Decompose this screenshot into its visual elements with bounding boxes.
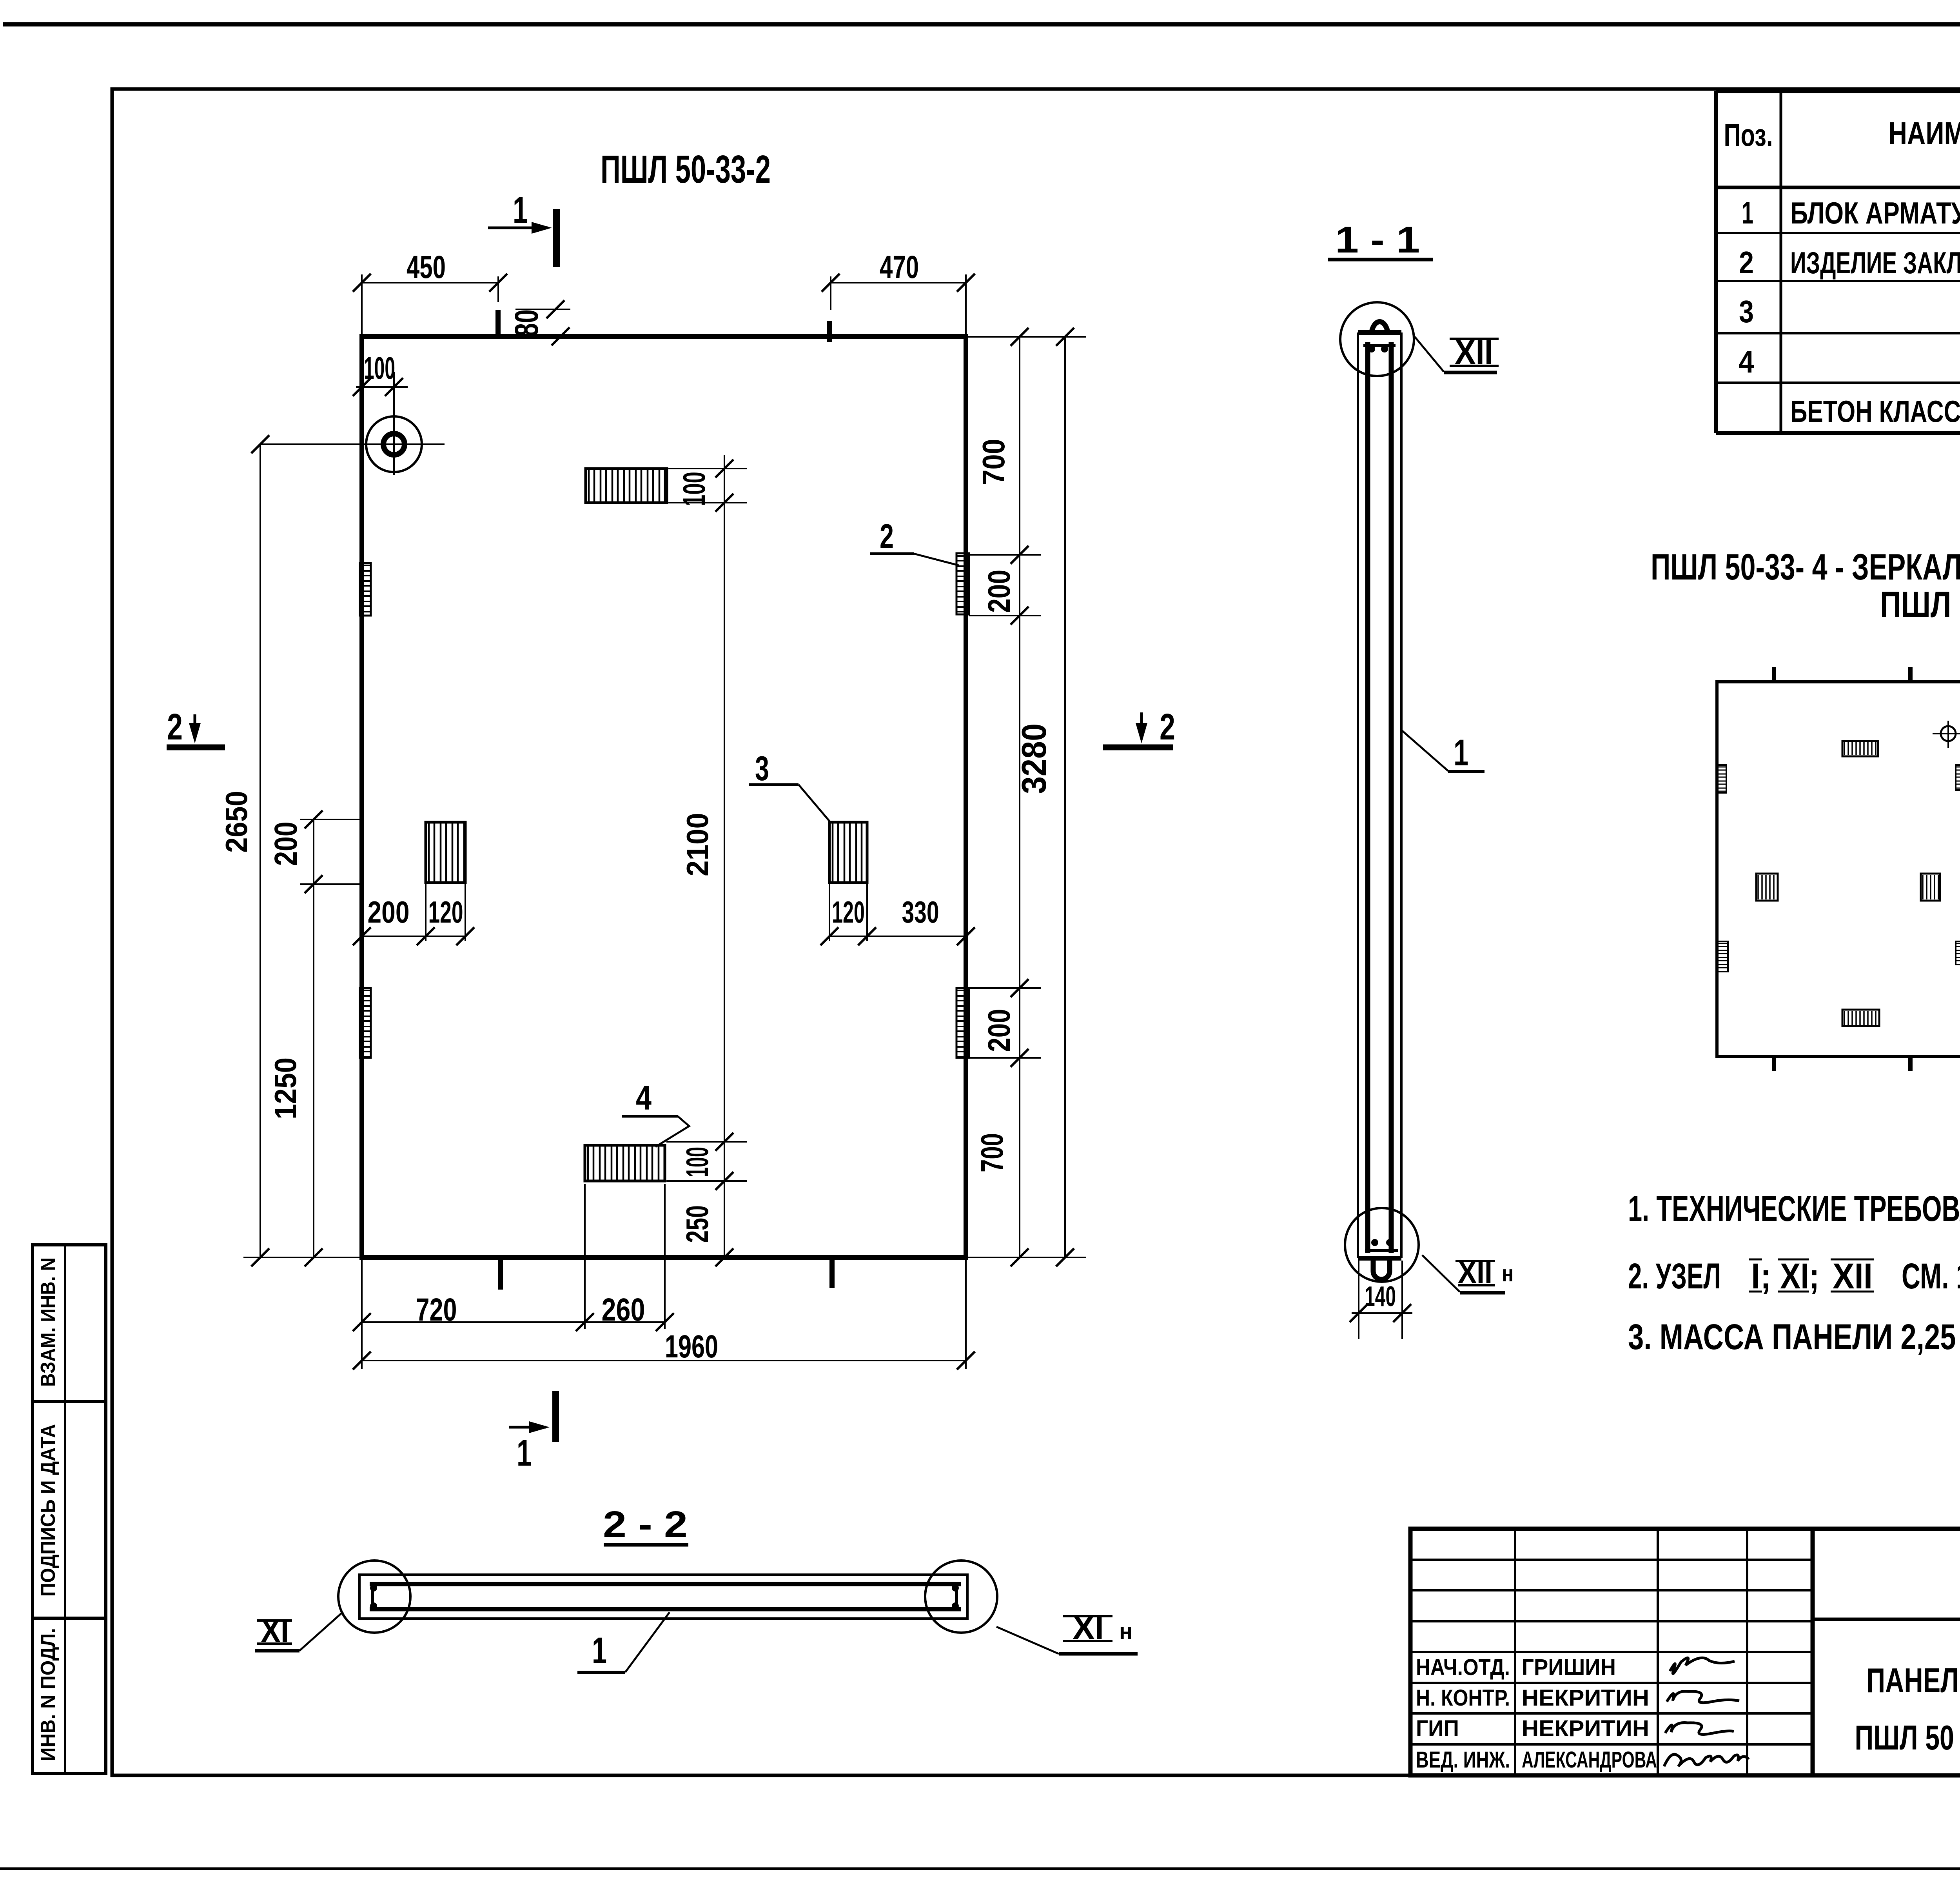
svg-text:100: 100 bbox=[677, 472, 711, 506]
svg-text:ПОДПИСЬ И ДАТА: ПОДПИСЬ И ДАТА bbox=[37, 1424, 60, 1597]
mirror edge plate right upper bbox=[1956, 765, 1960, 790]
svg-text:АЛЕКСАНДРОВА: АЛЕКСАНДРОВА bbox=[1522, 1747, 1657, 1773]
svg-text:2. УЗЕЛ: 2. УЗЕЛ bbox=[1628, 1256, 1721, 1296]
svg-text:XI;: XI; bbox=[1780, 1256, 1819, 1296]
svg-text:2: 2 bbox=[1160, 706, 1175, 748]
section 2-2 panel strip outline bbox=[359, 1575, 967, 1619]
dimension 720 260 bottom bbox=[361, 1257, 363, 1369]
edge plate left lower bbox=[360, 988, 371, 1058]
svg-text:ИЗДЕЛИЕ ЗАКЛАДНОЕ МН 1: ИЗДЕЛИЕ ЗАКЛАДНОЕ МН 1 bbox=[1790, 245, 1960, 280]
svg-text:4: 4 bbox=[636, 1078, 652, 1117]
overall dimension 3280 right bbox=[1064, 337, 1066, 1257]
section 2-2 left end rebar bbox=[371, 1584, 374, 1609]
svg-text:ПШЛ 50 - 33 -2; ПШЛ 50-33-4: ПШЛ 50 - 33 -2; ПШЛ 50-33-4 bbox=[1855, 1718, 1960, 1757]
signature Некритин 1 bbox=[1667, 1691, 1739, 1703]
svg-text:120: 120 bbox=[832, 895, 865, 929]
svg-text:200: 200 bbox=[982, 570, 1016, 613]
section 1-1 top lifting loop bbox=[1371, 322, 1388, 334]
svg-text:1: 1 bbox=[517, 1432, 532, 1474]
svg-text:XII: XII bbox=[1833, 1256, 1873, 1296]
svg-text:НАИМЕНОВАНИЕ: НАИМЕНОВАНИЕ bbox=[1889, 116, 1960, 151]
svg-text:3280: 3280 bbox=[1014, 723, 1053, 794]
svg-text:1: 1 bbox=[1742, 195, 1753, 230]
dimension 140 section 1-1 bbox=[1358, 1261, 1359, 1339]
svg-text:СМ. 1.089.1 - 2.1 - 1 - Д .: СМ. 1.089.1 - 2.1 - 1 - Д . bbox=[1902, 1256, 1960, 1296]
svg-text:120: 120 bbox=[428, 895, 463, 929]
section 2-2 right end rebar bbox=[955, 1584, 958, 1609]
section mark 1 bottom bbox=[552, 1391, 559, 1442]
embed mark stub bottom left bbox=[498, 1260, 503, 1290]
svg-text:н: н bbox=[1502, 1261, 1514, 1286]
parts table grid bbox=[1714, 91, 1718, 433]
mirror stub top right bbox=[1908, 667, 1913, 682]
embedded plate МН3 mid left bbox=[426, 822, 465, 883]
svg-text:НАЧ.ОТД.: НАЧ.ОТД. bbox=[1416, 1655, 1510, 1680]
detail label XII bbox=[1450, 338, 1499, 340]
svg-text:1. ТЕХНИЧЕСКИЕ ТРЕБОВАНИЯ: 1. ТЕХНИЧЕСКИЕ ТРЕБОВАНИЯ СМ. 1.089.1-2.… bbox=[1628, 1189, 1960, 1229]
svg-text:ГИП: ГИП bbox=[1416, 1716, 1459, 1741]
svg-text:4: 4 bbox=[1739, 344, 1754, 379]
svg-text:БЛОК АРМАТУРНЫЙ БА 10: БЛОК АРМАТУРНЫЙ БА 10 bbox=[1790, 196, 1960, 230]
embed mark stub top right bbox=[827, 321, 832, 342]
mirror edge plate left lower bbox=[1718, 941, 1728, 972]
document designation cell bbox=[1813, 1618, 1960, 1621]
detail label XIIн bbox=[1455, 1260, 1495, 1262]
svg-text:XII: XII bbox=[1455, 332, 1493, 371]
svg-text:ВЗАМ. ИНВ. N: ВЗАМ. ИНВ. N bbox=[37, 1257, 60, 1387]
svg-text:ПАНЕЛЬ ШАХТЫ ЛИФТА: ПАНЕЛЬ ШАХТЫ ЛИФТА bbox=[1866, 1661, 1960, 1700]
svg-text:XI: XI bbox=[261, 1612, 289, 1649]
title block outline bbox=[1410, 1529, 1960, 1775]
lifting hole circle bbox=[366, 416, 422, 472]
dimension 1960 bottom bbox=[965, 1257, 967, 1369]
embedded plate MН1 top middle bbox=[586, 469, 667, 503]
svg-text:140: 140 bbox=[1365, 1281, 1396, 1312]
signature Гришин bbox=[1670, 1658, 1735, 1673]
svg-text:700: 700 bbox=[975, 1133, 1009, 1172]
title block left table verticals bbox=[1514, 1529, 1516, 1775]
section 1-1 panel strip outline bbox=[1357, 332, 1359, 1258]
embedded plate МН1 bottom middle bbox=[585, 1145, 665, 1181]
svg-text:700: 700 bbox=[976, 439, 1011, 485]
mirror plate bottom middle bbox=[1842, 1010, 1879, 1026]
panel outline bbox=[362, 336, 966, 1257]
mirror stub bottom left bbox=[1772, 1056, 1776, 1071]
svg-text:1: 1 bbox=[1454, 732, 1468, 774]
detail circle XIн right bbox=[925, 1561, 997, 1633]
svg-text:2 - 2: 2 - 2 bbox=[603, 1504, 688, 1545]
svg-text:XII: XII bbox=[1458, 1255, 1492, 1290]
note 2 roman numeral bars bbox=[1749, 1259, 1762, 1261]
svg-text:3: 3 bbox=[755, 749, 769, 788]
svg-text:100: 100 bbox=[364, 351, 395, 385]
dimension chain 200 1250 left bbox=[313, 819, 314, 1257]
mirror lifting hole bbox=[1941, 726, 1956, 741]
edge plate right upper bbox=[956, 553, 969, 614]
detail circle XI left bbox=[338, 1561, 410, 1633]
sheet bottom edge line bbox=[0, 1868, 1960, 1870]
sheet top edge line bbox=[3, 22, 1960, 27]
edge plate left upper bbox=[360, 563, 371, 616]
embed mark stub bottom right bbox=[829, 1260, 835, 1288]
svg-text:720: 720 bbox=[416, 1292, 457, 1328]
svg-text:1250: 1250 bbox=[268, 1057, 303, 1119]
svg-text:I;: I; bbox=[1751, 1256, 1771, 1296]
svg-text:Н. КОНТР.: Н. КОНТР. bbox=[1416, 1685, 1510, 1711]
title block left table rows bbox=[1410, 1559, 1813, 1561]
embed mark stub top left bbox=[495, 310, 501, 334]
signature Александрова bbox=[1664, 1754, 1749, 1766]
signature Некритин 2 bbox=[1665, 1723, 1734, 1735]
svg-text:н: н bbox=[1119, 1619, 1132, 1644]
section 1-1 bottom loop bbox=[1373, 1258, 1390, 1279]
embedded plate МН3 mid right bbox=[829, 822, 867, 883]
svg-text:330: 330 bbox=[902, 895, 939, 929]
svg-text:НЕКРИТИН: НЕКРИТИН bbox=[1522, 1685, 1649, 1711]
mirror plate mid right bbox=[1921, 874, 1940, 901]
svg-text:3. МАССА ПАНЕЛИ 2,25 т.: 3. МАССА ПАНЕЛИ 2,25 т. bbox=[1628, 1317, 1960, 1357]
dimension 450 top bbox=[361, 274, 363, 336]
svg-text:2: 2 bbox=[880, 517, 894, 556]
svg-text:1: 1 bbox=[592, 1630, 607, 1671]
hole crosshair bbox=[260, 443, 445, 445]
svg-text:2: 2 bbox=[167, 706, 183, 748]
mirror plate top middle bbox=[1842, 741, 1878, 756]
mirror stub bottom right bbox=[1908, 1056, 1913, 1071]
svg-text:2: 2 bbox=[1739, 245, 1754, 280]
svg-text:1 - 1: 1 - 1 bbox=[1335, 219, 1420, 261]
right dimension chain 700 200 200 700 bbox=[1019, 337, 1020, 1257]
svg-text:80: 80 bbox=[508, 309, 545, 337]
svg-text:ГРИШИН: ГРИШИН bbox=[1522, 1655, 1616, 1680]
svg-text:ПШЛ 50-33-2: ПШЛ 50-33-2 bbox=[1880, 584, 1960, 625]
svg-text:260: 260 bbox=[602, 1292, 645, 1328]
mirror edge plate right lower bbox=[1956, 941, 1960, 965]
svg-text:2650: 2650 bbox=[219, 791, 254, 853]
section 1-1 armature block lines bbox=[1365, 342, 1370, 1253]
detail label XIн bbox=[1063, 1615, 1112, 1617]
dimension 470 top bbox=[830, 276, 831, 310]
svg-text:ВЕД. ИНЖ.: ВЕД. ИНЖ. bbox=[1416, 1747, 1510, 1773]
svg-text:3: 3 bbox=[1739, 294, 1754, 329]
edge plate right lower bbox=[956, 988, 969, 1058]
svg-text:200: 200 bbox=[368, 895, 410, 929]
dimension 100 top left bbox=[356, 386, 408, 388]
svg-text:470: 470 bbox=[880, 249, 919, 285]
svg-text:250: 250 bbox=[680, 1205, 715, 1243]
center dimension line 2100 bbox=[724, 455, 725, 1257]
dimension 120 330 below right plate bbox=[829, 884, 830, 941]
section 2-2 armature block lines bbox=[370, 1582, 961, 1586]
svg-text:200: 200 bbox=[268, 822, 304, 866]
left margin stamp boxes bbox=[33, 1245, 106, 1773]
svg-text:2100: 2100 bbox=[680, 813, 715, 876]
dimension 80 top bbox=[515, 309, 570, 310]
svg-text:ПШЛ 50-33-2: ПШЛ 50-33-2 bbox=[601, 147, 771, 191]
svg-text:XI: XI bbox=[1073, 1609, 1104, 1646]
svg-text:ИНВ. N ПОДЛ.: ИНВ. N ПОДЛ. bbox=[37, 1628, 60, 1761]
detail circle XII top bbox=[1340, 302, 1414, 376]
dimension 2650 left bbox=[260, 444, 261, 1257]
svg-text:100: 100 bbox=[680, 1147, 715, 1177]
svg-text:БЕТОН КЛАССА В 15, м: БЕТОН КЛАССА В 15, м bbox=[1790, 394, 1960, 429]
svg-text:1960: 1960 bbox=[665, 1329, 718, 1364]
mirror panel outline bbox=[1717, 682, 1960, 1056]
mirror stub top left bbox=[1772, 667, 1776, 682]
svg-text:1: 1 bbox=[513, 189, 528, 231]
svg-text:450: 450 bbox=[407, 249, 446, 285]
detail circle XII bottom bbox=[1345, 1208, 1419, 1282]
detail label XI bbox=[257, 1619, 292, 1622]
mirror edge plate left upper bbox=[1718, 765, 1726, 793]
dimension 200 120 below left plate bbox=[425, 884, 426, 941]
svg-text:Поз.: Поз. bbox=[1724, 118, 1773, 153]
svg-text:ПШЛ 50-33- 4 - ЗЕРКАЛЬНОЕ ОТР: ПШЛ 50-33- 4 - ЗЕРКАЛЬНОЕ ОТРАЖЕНИЕ bbox=[1651, 546, 1960, 587]
svg-text:200: 200 bbox=[982, 1009, 1016, 1052]
svg-text:НЕКРИТИН: НЕКРИТИН bbox=[1522, 1716, 1649, 1741]
mirror plate mid left bbox=[1756, 874, 1778, 901]
